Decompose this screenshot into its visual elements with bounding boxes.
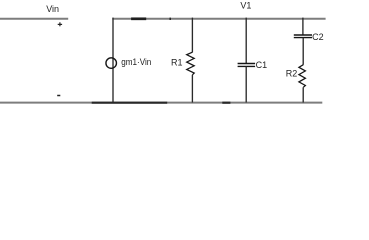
svg-text:V1: V1 <box>240 1 251 11</box>
capacitor C1 top plate <box>238 63 256 65</box>
wire R1 top lead <box>191 18 193 53</box>
svg-text:gm1·Vin: gm1·Vin <box>121 57 151 67</box>
svg-text:C1: C1 <box>256 60 268 70</box>
wire C1 top lead <box>245 18 247 64</box>
wire bottom rail dark segment left <box>92 102 168 104</box>
wire R1 bottom lead <box>191 75 193 103</box>
wire C2 top lead <box>302 18 304 35</box>
current source G1 circle <box>106 58 117 69</box>
capacitor C1 bottom plate <box>238 65 256 67</box>
svg-text:R2: R2 <box>286 69 298 79</box>
wire current source branch vertical <box>112 18 114 103</box>
svg-text:Vin: Vin <box>46 4 59 14</box>
Vin minus polarity mark <box>57 95 60 97</box>
wire top rail <box>112 18 325 20</box>
wire bottom rail dark segment right <box>222 102 230 104</box>
wire C1 bottom lead <box>245 67 247 103</box>
wire C2 to R2 <box>302 38 304 65</box>
Vin plus polarity mark <box>58 22 62 26</box>
svg-text:R1: R1 <box>171 57 183 67</box>
wire Vin top lead <box>0 18 68 20</box>
wire R2 bottom lead <box>302 87 304 102</box>
resistor R2 zigzag <box>299 65 306 88</box>
wire top rail dark segment <box>131 17 146 20</box>
resistor R1 zigzag <box>187 52 195 75</box>
wire bottom rail <box>0 102 322 104</box>
wire top rail dark tick <box>170 18 171 20</box>
svg-text:C2: C2 <box>312 32 324 42</box>
capacitor C2 top plate <box>294 34 312 36</box>
capacitor C2 bottom plate <box>294 37 312 39</box>
